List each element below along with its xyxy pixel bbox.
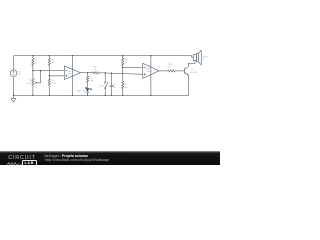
resistor R10 bbox=[168, 70, 176, 72]
wire OA2 out b bbox=[175, 70, 185, 72]
wire bottom rail bbox=[14, 94, 189, 96]
wiper arrow R3 bbox=[35, 82, 37, 84]
wire led a bbox=[87, 73, 89, 76]
switch SW1 bbox=[104, 82, 106, 84]
transistor Q1 bbox=[184, 68, 186, 74]
wire OA2 out a bbox=[159, 70, 168, 72]
wire sw b bbox=[104, 89, 106, 95]
svg-text:SW1: SW1 bbox=[99, 85, 103, 87]
LED LED1 bbox=[86, 88, 90, 92]
junction col2 bottom bbox=[49, 95, 50, 96]
wire op1 plus bbox=[49, 75, 64, 77]
wire op1 minus bbox=[33, 70, 64, 72]
junction col1 minus bbox=[32, 70, 33, 71]
wire OA1 out a bbox=[81, 72, 92, 74]
wire col2 b bbox=[48, 66, 50, 79]
wire top rail bbox=[14, 56, 194, 57]
junction cap top bbox=[111, 73, 112, 74]
wire V1 column top bbox=[13, 56, 15, 70]
junction led bottom bbox=[87, 95, 88, 96]
wire cap b bbox=[111, 87, 113, 96]
junction OA1 vcc bbox=[72, 55, 73, 56]
potentiometer R3 bbox=[32, 78, 34, 86]
op-amp OA2 bbox=[143, 63, 159, 78]
wire col1 c bbox=[32, 71, 34, 79]
junction wiper bbox=[40, 70, 41, 71]
resistor R5 bbox=[87, 76, 89, 82]
caption title bbox=[45, 154, 89, 158]
wire col1 b bbox=[32, 66, 34, 71]
wire colm c bbox=[122, 89, 124, 96]
wire OA1 power bbox=[72, 56, 74, 95]
junction sw top bbox=[105, 72, 106, 73]
junction cap bottom bbox=[111, 95, 112, 96]
wire led c bbox=[87, 92, 89, 95]
caption url bbox=[45, 158, 110, 162]
wire op2 minus bbox=[123, 67, 143, 69]
junction OA2 vcc bbox=[150, 55, 151, 56]
CircuitLab logo bbox=[8, 155, 35, 161]
junction col1 top bbox=[32, 55, 33, 56]
wire col2 a bbox=[48, 56, 50, 58]
wire ground stub bbox=[13, 95, 15, 98]
wire col1 d bbox=[32, 86, 34, 95]
capacitor C1 bbox=[110, 85, 114, 86]
svg-text:SPK1: SPK1 bbox=[203, 56, 209, 58]
junction OA1 vee bbox=[72, 95, 73, 96]
junction col2 top bbox=[49, 55, 50, 56]
wire OA1 out b bbox=[99, 73, 142, 75]
junction col2 plus bbox=[49, 75, 50, 76]
junction colm minus bbox=[122, 67, 123, 68]
wire Q1 collector bbox=[188, 61, 195, 67]
junction ground bbox=[13, 95, 14, 96]
wire R3 wiper bbox=[36, 71, 41, 83]
wire cap a bbox=[111, 73, 113, 85]
voltage source V1 bbox=[10, 70, 17, 77]
resistor R8 bbox=[122, 58, 124, 66]
svg-text:LED1 red: LED1 red bbox=[77, 90, 85, 92]
wire colm a bbox=[122, 56, 124, 58]
wire col2 c bbox=[48, 86, 50, 95]
junction led branch bbox=[87, 72, 88, 73]
resistor R1 bbox=[32, 58, 34, 66]
speaker SPK1 bbox=[193, 55, 196, 61]
svg-text:LM741: LM741 bbox=[68, 73, 74, 75]
junction col1 bottom bbox=[32, 95, 33, 96]
resistor R6 bbox=[92, 72, 99, 74]
wire colm b bbox=[122, 66, 124, 81]
svg-text:BC548: BC548 bbox=[191, 72, 198, 74]
wire led b bbox=[87, 82, 89, 88]
LED color mark bbox=[85, 87, 87, 89]
junction OA2 vee bbox=[150, 95, 151, 96]
wire col1 a bbox=[32, 56, 34, 58]
wire OA2 power bbox=[150, 56, 152, 95]
junction sw bottom bbox=[105, 95, 106, 96]
junction colm top bbox=[122, 55, 123, 56]
wire Q1 emitter bbox=[187, 75, 190, 95]
ground G1 bbox=[11, 99, 16, 102]
resistor R4 bbox=[48, 78, 50, 86]
op-amp OA1 bbox=[64, 66, 80, 80]
resistor R9 bbox=[122, 81, 124, 89]
svg-text:LM741: LM741 bbox=[146, 71, 152, 73]
resistor R2 bbox=[48, 58, 50, 66]
junction colm bottom bbox=[122, 95, 123, 96]
wire sw a bbox=[104, 73, 106, 82]
wire V1 column bottom bbox=[13, 77, 15, 96]
